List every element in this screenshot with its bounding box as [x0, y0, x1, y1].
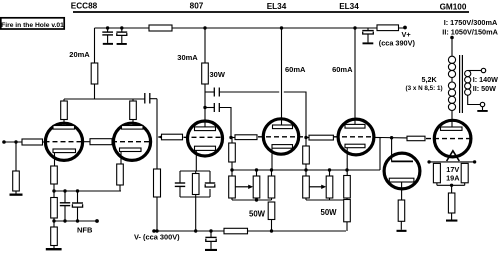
wire Cb to EL34 I grid	[219, 108, 231, 138]
svg-text:(3 x N 8,5: 1): (3 x N 8,5: 1)	[406, 85, 443, 92]
wire Ca after crossing	[284, 92, 306, 138]
wire cathode lead 807	[195, 150, 197, 171]
svg-text:19A: 19A	[446, 174, 460, 183]
resistor 807 cathode	[195, 171, 197, 174]
ground (divider)	[46, 248, 62, 250]
wire 50W II to rail	[346, 222, 348, 231]
resistor hum pot II middle	[326, 170, 333, 200]
wire pot top lead	[156, 99, 158, 169]
wire EL34 I grid leak lead	[231, 138, 233, 144]
capacitor cathode bypass right (electrolytic)	[209, 171, 211, 183]
resistor input grid leak	[13, 171, 20, 191]
wire HT to transformer primary	[451, 38, 453, 57]
node junction C2	[120, 26, 123, 29]
ground (input)	[10, 194, 23, 196]
resistor EL34 II grid stopper	[309, 135, 333, 140]
node NFB bus 65	[63, 219, 66, 222]
svg-text:60mA: 60mA	[285, 65, 306, 74]
node bus 329.5	[328, 168, 331, 171]
node EL34 I plate junction	[280, 26, 283, 29]
wire V1b plate resistor stub	[132, 99, 134, 101]
node input terminal	[2, 140, 6, 144]
capacitor NFB right (electrolytic)	[72, 191, 83, 221]
svg-text:5,2K: 5,2K	[422, 75, 438, 84]
ground (diode)	[397, 230, 407, 232]
plate bar EL34 II	[345, 124, 365, 128]
ground (rail cap)	[205, 249, 217, 251]
plate bar V1a	[53, 126, 75, 130]
capacitor cathode bypass left	[179, 171, 181, 183]
node bus 270.5	[270, 168, 273, 171]
node rail 807 junction	[194, 229, 197, 232]
node HT terminal	[450, 36, 454, 40]
node rail 50W I junction	[270, 229, 273, 232]
node NFB cap right junction top	[76, 189, 79, 192]
transformer OT primary winding	[448, 56, 455, 110]
cathode bar 807	[195, 146, 216, 150]
wire riser 20mA dropper	[94, 28, 96, 63]
node filament center	[450, 184, 453, 187]
wire cathode lead EL34 II	[346, 148, 348, 170]
resistor V1b plate load	[130, 101, 137, 120]
plate bar EL34 I	[273, 125, 293, 129]
wire 807 plate riser	[204, 28, 206, 63]
resistor divider bottom	[51, 227, 58, 246]
wire GM100 resistor to ground	[451, 213, 453, 220]
capacitor rail bypass (electrolytic)	[205, 231, 216, 249]
resistor filament left	[433, 163, 440, 182]
wire RC box top	[180, 170, 210, 172]
wire grid junction to stopper	[231, 137, 235, 139]
capacitor NFB left	[60, 191, 70, 221]
capacitor coupling Cb (to EL34 I)	[205, 103, 219, 112]
terminal secondary bottom	[480, 102, 484, 106]
resistor 20mA dropper	[91, 63, 98, 84]
wiper arrow volume pot	[158, 135, 163, 140]
plate bar V1b	[122, 126, 144, 130]
tube V1a ECC88 triode	[45, 120, 85, 167]
wire V1b cathode resistor to bus	[119, 185, 121, 191]
wire EL34 I plate riser	[281, 28, 283, 125]
wire V1a cathode network	[51, 166, 58, 191]
cathode bar V1b	[120, 148, 142, 152]
tube V3 EL34 I	[258, 119, 306, 170]
cathode bar diode	[389, 178, 414, 182]
wire pot II bottom tie	[306, 199, 344, 201]
svg-text:I: 140W: I: 140W	[473, 75, 498, 84]
terminal secondary top	[481, 68, 485, 72]
svg-text:II: 1050V/150mA: II: 1050V/150mA	[442, 27, 498, 36]
wire grid junction to stopper II	[306, 137, 309, 139]
grid (dashed) EL34 I	[258, 136, 306, 138]
node NFB cap left junction top	[63, 189, 66, 192]
grid (dashed) V1a	[45, 141, 85, 143]
tube V2 807	[184, 121, 223, 171]
wire leak to bias bus	[231, 162, 233, 170]
wire center tap down	[451, 185, 453, 193]
capacitor filter C3 (electrolytic, near V+)	[362, 28, 373, 42]
node junction caps on B+	[106, 26, 109, 29]
wire cathode bias bus	[232, 169, 380, 171]
grid (dashed) EL34 II	[334, 136, 376, 138]
wire input grid leak lead	[15, 142, 17, 171]
tube V4 EL34 II	[334, 119, 376, 170]
node filament bus right terminal	[473, 160, 476, 163]
svg-text:II: 50W: II: 50W	[473, 84, 496, 93]
wire diode resistor to ground	[400, 221, 402, 230]
filament GM100	[447, 151, 460, 161]
resistor EL34 II cathode 50W	[344, 200, 351, 222]
svg-text:50W: 50W	[249, 209, 266, 218]
resistor GM100 cathode	[448, 193, 455, 213]
resistor V1a plate load	[61, 101, 68, 120]
potentiometer volume	[154, 169, 161, 197]
wire V1a-V1b link	[84, 141, 90, 143]
wire cathode lead V1b	[120, 152, 122, 165]
cathode bar EL34 I	[272, 145, 293, 149]
plate bar diode	[391, 160, 413, 162]
wire EL34 II grid leak lead	[305, 138, 307, 147]
wire filament bottom tie	[437, 183, 465, 186]
resistor EL34 I cathode	[268, 170, 275, 200]
transformer core	[460, 55, 463, 113]
svg-text:I: 1750V/300mA: I: 1750V/300mA	[444, 18, 498, 27]
resistor B+ feed	[377, 25, 399, 31]
resistor rail series	[224, 228, 248, 234]
resistor B+ dropper R2	[149, 25, 172, 31]
node EL34 I grid junction	[229, 136, 232, 139]
resistor input series	[22, 139, 43, 145]
wire RC box bottom	[180, 196, 210, 198]
resistor hum pot I middle	[253, 170, 260, 200]
tube V5 diode	[384, 153, 420, 200]
resistor 807 grid	[162, 134, 183, 140]
wire resistor to grid	[43, 141, 46, 143]
svg-text:V- (cca 300V): V- (cca 300V)	[134, 232, 180, 241]
resistor EL34 I cathode 50W	[268, 202, 275, 220]
svg-text:50W: 50W	[321, 208, 338, 217]
807 cathode RC network box	[175, 171, 215, 197]
wire secondary top lead	[468, 70, 482, 72]
plate bar GM100	[441, 127, 463, 130]
wiper arrow pot II	[310, 185, 327, 189]
svg-text:ECC88: ECC88	[71, 2, 98, 11]
svg-text:GM100: GM100	[440, 2, 467, 11]
resistor filament right	[461, 163, 468, 182]
resistor interstage	[90, 139, 112, 145]
wire 50W I to rail	[271, 220, 273, 232]
ground (C1)	[103, 43, 113, 45]
plate bar 807	[195, 127, 216, 131]
node 807 plate junction	[203, 26, 206, 29]
node cap Cb junction	[203, 106, 206, 109]
node bus 306	[304, 168, 307, 171]
wire divider middle to NFB bus	[53, 191, 55, 198]
title box "Fire in the Hole v.01"	[1, 18, 64, 29]
resistor hum pot I left	[229, 170, 236, 200]
wire cathode lead diode	[401, 182, 403, 200]
resistor GM100 grid stopper	[407, 136, 425, 141]
wire filament bus	[429, 161, 475, 163]
resistor V1b cathode	[117, 164, 124, 185]
wire plate lead V1b	[132, 120, 134, 126]
tube V1b ECC88 triode	[112, 120, 151, 165]
resistor V1a cathode upper	[51, 166, 58, 184]
capacitor coupling (to volume pot)	[145, 93, 150, 104]
node filament bus left terminal	[427, 160, 430, 163]
wire EL34 II grid to diode/GM100	[374, 136, 407, 139]
wire pot bottom lead	[156, 197, 158, 231]
resistor EL34 II cathode	[344, 170, 351, 200]
wire B+ distribution bus y=28	[95, 27, 406, 29]
node EL34 II plate junction	[353, 26, 356, 29]
node rail pot junction	[155, 229, 158, 232]
resistor EL34 I grid stopper	[235, 135, 257, 140]
transformer OT secondary winding	[465, 71, 471, 96]
wire Ca to crossing	[219, 91, 279, 93]
node bus 347	[345, 168, 348, 171]
resistor divider middle	[51, 198, 58, 219]
grid (dashed) GM100	[426, 138, 471, 140]
wire NFB bus	[54, 220, 97, 222]
node EL34 II grid junction	[304, 136, 307, 139]
svg-text:EL34: EL34	[339, 2, 359, 11]
ground (secondary)	[477, 107, 487, 112]
capacitor coupling Ca (to EL34 II)	[205, 88, 219, 97]
node NFB terminal	[95, 219, 99, 223]
node rail cap junction	[209, 229, 212, 232]
wire diode plate drop	[391, 138, 393, 162]
wire cathode link bus	[54, 190, 121, 192]
wire 807 cathode to rail	[195, 197, 197, 231]
svg-text:20mA: 20mA	[69, 50, 90, 59]
ground (C2)	[117, 43, 127, 45]
tube V6 GM100	[426, 120, 471, 161]
svg-text:EL34: EL34	[267, 2, 287, 11]
wire to ground	[15, 191, 17, 194]
wire EL34 II plate riser	[354, 28, 356, 125]
svg-text:30W: 30W	[210, 70, 226, 79]
svg-text:30mA: 30mA	[177, 53, 198, 62]
node V+ terminal	[403, 26, 407, 30]
grid (dashed) 807	[184, 136, 222, 138]
wire cathode lead EL34 I	[271, 148, 273, 170]
grid (dashed) V1b	[112, 141, 151, 143]
resistor EL34 II grid leak	[303, 146, 310, 164]
wire V- rail	[153, 230, 347, 232]
node tie 256.5	[255, 198, 258, 201]
ground (C3)	[363, 42, 374, 44]
cathode bar V1a	[53, 149, 76, 153]
wire plate node bus y=99	[64, 98, 145, 100]
wire V1a plate resistor stub	[63, 99, 65, 101]
resistor 807 plate load 30W	[202, 63, 209, 84]
wiper arrow pot I	[236, 185, 254, 189]
node NFB bus 54	[52, 219, 55, 222]
wire divider to ground	[53, 246, 55, 249]
cathode bar EL34 II	[345, 144, 365, 148]
node V- terminal	[152, 229, 156, 233]
node NFB bus 77.5	[76, 219, 79, 222]
capacitor filter C1	[102, 28, 113, 43]
resistor hum pot II left	[303, 170, 310, 200]
ground (GM100)	[446, 220, 457, 222]
wire 807 plate lead	[204, 84, 206, 127]
node cathode junction	[52, 189, 55, 192]
header underline	[73, 11, 469, 13]
wire pot I bottom tie	[232, 199, 272, 201]
node input junction	[14, 140, 17, 143]
svg-text:60mA: 60mA	[332, 65, 353, 74]
node bus 232	[230, 168, 233, 171]
svg-text:Fire in the Hole v.01: Fire in the Hole v.01	[1, 22, 64, 29]
wire leak II to bias bus	[305, 164, 307, 170]
capacitor filter C2 (electrolytic)	[116, 28, 127, 43]
wire dropper to plate node	[94, 84, 96, 99]
wire input	[4, 141, 22, 143]
resistor diode cathode	[398, 200, 405, 221]
wire primary bottom to GM100 plate	[451, 111, 453, 128]
node diode plate junction	[390, 136, 393, 139]
svg-text:807: 807	[190, 2, 204, 11]
wire cathode lead V1a	[54, 153, 56, 166]
wire plate lead V1a	[63, 120, 65, 126]
resistor EL34 I grid leak	[229, 143, 236, 162]
wire plate node to volume pot	[150, 98, 157, 100]
svg-text:(cca 390V): (cca 390V)	[379, 38, 416, 47]
wire secondary bottom lead	[468, 95, 481, 104]
node bus 256.5	[255, 168, 258, 171]
svg-text:NFB: NFB	[77, 225, 93, 234]
wire bus riser to EL34 II grid wire	[379, 137, 381, 170]
